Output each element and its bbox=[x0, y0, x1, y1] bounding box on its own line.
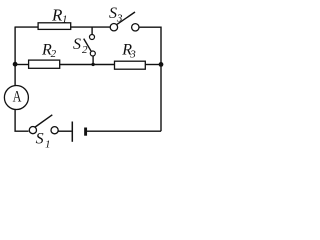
node S2-row junction bbox=[91, 63, 94, 66]
battery long plate bbox=[71, 122, 73, 142]
svg-text:A: A bbox=[13, 88, 22, 105]
node junction right bbox=[159, 62, 164, 67]
battery short thick plate bbox=[84, 128, 87, 136]
svg-text:2: 2 bbox=[51, 48, 57, 60]
node junction left bbox=[13, 62, 18, 67]
svg-text:S: S bbox=[36, 131, 44, 148]
wire second row middle bbox=[60, 64, 115, 66]
switch S2 blade bbox=[84, 39, 92, 52]
wire left vertical upper bbox=[14, 27, 16, 86]
wire top-right horizontal bbox=[139, 26, 161, 28]
wire right vertical bbox=[160, 27, 162, 132]
svg-text:3: 3 bbox=[116, 13, 123, 25]
svg-text:1: 1 bbox=[45, 139, 51, 151]
resistor R1 bbox=[38, 23, 71, 30]
wire battery to right bbox=[87, 130, 161, 132]
svg-text:1: 1 bbox=[62, 14, 68, 26]
switch S2 bottom terminal bbox=[90, 51, 95, 56]
svg-text:S: S bbox=[73, 36, 81, 53]
switch S2 top terminal bbox=[90, 35, 95, 40]
switch S1 left terminal bbox=[29, 127, 36, 134]
wire second row right bbox=[145, 64, 161, 66]
svg-text:2: 2 bbox=[82, 44, 88, 56]
wire top-left horizontal bbox=[15, 26, 38, 28]
switch S3 left terminal bbox=[110, 24, 117, 31]
switch S1 right terminal bbox=[51, 127, 58, 134]
wire second row left bbox=[15, 64, 29, 66]
wire S1 to battery bbox=[58, 130, 71, 132]
switch S2 bottom stub wire bbox=[92, 56, 94, 65]
wire top middle bbox=[71, 26, 111, 28]
switch S2 top stub wire bbox=[91, 27, 93, 34]
ammeter A bbox=[4, 86, 28, 110]
svg-text:3: 3 bbox=[129, 49, 136, 61]
resistor R2 bbox=[29, 60, 60, 68]
switch S3 blade bbox=[117, 12, 135, 24]
switch S1 blade bbox=[35, 115, 52, 127]
wire left vertical lower bbox=[15, 109, 29, 131]
resistor R3 bbox=[115, 61, 146, 69]
svg-text:S: S bbox=[109, 5, 117, 22]
switch S3 right terminal bbox=[132, 24, 139, 31]
